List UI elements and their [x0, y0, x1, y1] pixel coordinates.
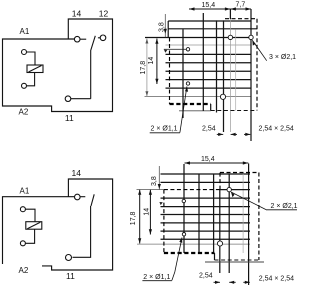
dashed outline right edge (top layout) [256, 19, 258, 111]
hole 14 Ø2,1 (top layout) [228, 35, 232, 39]
dimension text 2x01,1 (bottom layout) [143, 274, 170, 281]
hole 11 Ø2,1 (bottom layout) [217, 241, 222, 246]
terminal 14 circle (top) [74, 36, 80, 42]
coil bottom wire (bottom) [25, 229, 34, 243]
grid column x=202.5 [202, 13, 204, 111]
grid column x=168.2 solid top part [167, 21, 169, 38]
grid row y=189.6 right segment (bottom layout) [220, 189, 250, 191]
svg-text:12: 12 [99, 8, 109, 18]
outline step (top layout) [210, 104, 212, 111]
grid row y=96.5 gray extension row [145, 96, 252, 98]
grid row y=239.2 [161, 238, 251, 240]
extension line at top edge (bottom layout) [137, 189, 164, 191]
hole A1 Ø1,1 (top layout) [186, 48, 189, 51]
svg-text:14: 14 [72, 8, 82, 18]
grid row y=174 [161, 173, 251, 175]
grid column x=216.5 [216, 20, 218, 112]
dimension text 17,8 rotated (bottom layout) [130, 211, 137, 225]
dashed outline top edge (bottom layout) [164, 189, 220, 191]
grid row y=182.4 [161, 181, 251, 183]
light grid column x=230.4 lower part [229, 19, 231, 132]
grid row y=88.1 [166, 87, 252, 89]
grid row y=28.8 [168, 28, 257, 30]
coil top wire (bottom) [25, 209, 35, 222]
label A1 (bottom schematic) [20, 187, 30, 196]
svg-text:14: 14 [72, 168, 82, 178]
label 11 (top schematic) [65, 113, 74, 123]
dimension text 14 rotated (top layout) [148, 57, 155, 65]
dashed outline left edge (top layout) [169, 38, 171, 105]
grid row y=206.6 [161, 206, 251, 208]
grid row y=231.1 [161, 230, 251, 232]
dimension text 15,4 (top layout) [202, 2, 216, 9]
terminal 14 circle (bottom) [75, 194, 81, 200]
outline step (bottom layout) [214, 253, 216, 260]
terminal A1 pad circle (top) [22, 50, 27, 55]
dashed outline bottom-right edge (top layout) [211, 110, 257, 112]
hole 12 Ø2,1 (top layout) [249, 35, 253, 39]
svg-text:15,4: 15,4 [201, 156, 215, 163]
terminal 12 circle (top) [100, 35, 106, 41]
contact 12 stub [98, 37, 100, 39]
grid column x=251 extension both dims [250, 9, 252, 141]
dashed outline top edge (top layout) [225, 18, 257, 20]
dimension text 15,4 (bottom layout) [201, 156, 215, 163]
svg-text:2,54 × 2,54: 2,54 × 2,54 [259, 276, 294, 283]
movable contact arm (11 to 12) [91, 36, 96, 99]
dashed outline bottom-right edge (bottom layout) [215, 259, 259, 261]
label 11 (bottom schematic) [66, 271, 75, 281]
svg-text:14: 14 [148, 57, 155, 65]
light grid column x=243.1 [242, 174, 244, 253]
svg-text:14: 14 [143, 208, 150, 216]
svg-text:11: 11 [65, 113, 74, 123]
coil K1 (bottom schematic) [26, 222, 42, 230]
svg-text:2 × Ø1,1: 2 × Ø1,1 [151, 126, 178, 133]
dimension 15,4 line with arrows (bottom layout) [185, 161, 249, 164]
terminal 11 circle (bottom) [66, 255, 72, 261]
coil top wire [27, 52, 36, 65]
hole A2 Ø1,1 (bottom layout) [182, 233, 185, 236]
svg-text:3,8: 3,8 [151, 176, 158, 186]
label 12 (top schematic) [99, 8, 109, 18]
grid row y=214.5 [161, 214, 251, 216]
coil hole row mark y=49.3 [164, 49, 186, 52]
dimension text 2x01,1 (top layout) [151, 126, 178, 133]
dimension text 3,8 rotated (bottom layout) [151, 176, 158, 186]
dimension 3,8 line with arrows (bottom layout) [158, 166, 161, 190]
grid column x=183 [182, 29, 184, 118]
svg-text:A1: A1 [20, 187, 30, 196]
dimension text 14 rotated (bottom layout) [143, 208, 150, 216]
solid bottom line y=262 (bottom layout) [205, 261, 264, 263]
dimension text 2,54 (bottom layout) [199, 273, 213, 280]
dimension text 3,8 rotated (top layout) [159, 22, 166, 32]
pin 11 stub wire [71, 98, 91, 100]
svg-text:A2: A2 [19, 266, 29, 275]
leader 2x02,1 with underline (bottom layout) [231, 192, 297, 210]
dimension text 3x02,1 (top layout) [269, 54, 296, 61]
dimension 15,4 line with arrows (top layout) [189, 7, 230, 10]
bottom tab line y=110.8 [179, 110, 211, 112]
relay body outline (top schematic) [3, 19, 113, 112]
dashed outline bottom-left thick edge (top layout) [170, 103, 211, 105]
hole 11 Ø2,1 (top layout) [220, 94, 225, 99]
svg-text:A2: A2 [19, 108, 29, 117]
dimension text 2x02,1 (bottom layout) [271, 203, 298, 210]
label 14 (bottom schematic) [72, 168, 82, 178]
svg-text:17,8: 17,8 [130, 211, 137, 225]
grid column x=219.8 pin 11 column [219, 190, 221, 273]
dashed notch top edge (bottom layout) [220, 172, 259, 174]
grid row y=222.9 [161, 222, 251, 224]
label 14 (top schematic) [72, 8, 82, 18]
svg-text:2 × Ø2,1: 2 × Ø2,1 [271, 203, 298, 210]
grid row y=37.5 with left extension [145, 37, 251, 39]
leader 3x02,1 arrow (top layout) [252, 40, 266, 61]
contact 14 stub (bottom) [80, 196, 85, 198]
grid column x=199 [198, 174, 200, 253]
dimension 7,7 line with arrows (top layout) [230, 7, 251, 10]
dimension 3,8 line with arrows (top layout) [164, 14, 167, 37]
dimension 14 line (top layout) [155, 39, 158, 85]
grid column x=229.2 pin 14 column [228, 174, 230, 273]
leader 2x01,1 arrow (top layout) [150, 86, 188, 132]
pin row extension y=244.1 [137, 243, 250, 245]
terminal A2 pad circle (bottom) [20, 241, 25, 246]
dashed outline right edge (bottom layout) [258, 173, 260, 261]
movable contact arm (bottom) [73, 206, 91, 257]
contact slash (bottom) [91, 194, 94, 206]
terminal A1 pad circle (bottom) [20, 207, 25, 212]
label A2 (bottom schematic) [19, 266, 29, 275]
dimension text 2,54x2,54 (bottom layout) [259, 276, 294, 283]
grid column x=248.3 extension dims [248, 164, 250, 286]
svg-text:2,54: 2,54 [202, 126, 216, 133]
svg-text:11: 11 [66, 271, 75, 281]
bottom 2,54 arrows (top layout) [217, 133, 251, 136]
light grid row y=45.9 [166, 44, 252, 46]
coil bottom wire [27, 73, 35, 86]
svg-text:2,54: 2,54 [199, 273, 213, 280]
svg-text:2 × Ø1,1: 2 × Ø1,1 [143, 274, 170, 281]
bottom 2,54 arrows (bottom layout) [214, 281, 250, 284]
grid column x=213.6 [213, 174, 215, 253]
leader 2x01,1 arrow (bottom layout) [142, 238, 182, 281]
svg-text:3,8: 3,8 [159, 22, 166, 32]
hole 14 Ø2,1 (bottom layout) [227, 187, 231, 191]
grid column x=184 15,4 extension [183, 164, 185, 253]
dimension text 2,54 (top layout) [202, 126, 216, 133]
grid row y=62.8 [166, 62, 252, 64]
terminal 11 circle (top) [65, 96, 71, 102]
label A2 (top schematic) [19, 108, 29, 117]
svg-text:3 × Ø2,1: 3 × Ø2,1 [269, 54, 296, 61]
svg-text:15,4: 15,4 [202, 2, 216, 9]
dimension text 17,8 rotated (top layout) [140, 61, 147, 75]
terminal A2 pad circle (top) [22, 83, 27, 88]
svg-text:2,54 × 2,54: 2,54 × 2,54 [259, 126, 294, 133]
grid column x=230.4 extension to top dimension [229, 9, 231, 19]
svg-text:A1: A1 [20, 27, 30, 36]
label A1 (top schematic) [20, 27, 30, 36]
dimension text 7,7 (top layout) [236, 2, 246, 9]
grid column x=223.5 extends to dimension area [223, 20, 225, 132]
light grid column x=235.7 [235, 29, 237, 110]
dashed outline left edge (bottom layout) [163, 190, 165, 253]
dimension text 2,54x2,54 (top layout) [259, 126, 294, 133]
grid row y=79.6 [166, 79, 252, 81]
contact 14 stub [80, 38, 86, 40]
hole A1 Ø1,1 (bottom layout) [182, 199, 185, 202]
coil K1 (top schematic) [27, 65, 43, 73]
relay body outline (bottom schematic) [3, 179, 113, 270]
hole A2 Ø1,1 (top layout) [186, 82, 189, 85]
grid row y=71.2 [166, 70, 252, 72]
coil hole row mark (bottom layout) [159, 202, 162, 205]
dimension 17,8 line light (top layout) [145, 39, 148, 97]
dimension 14 line (bottom layout) [149, 190, 152, 235]
svg-text:7,7: 7,7 [236, 2, 246, 9]
dimension 17,8 line (bottom layout) [138, 190, 141, 244]
svg-text:17,8: 17,8 [140, 61, 147, 75]
grid row y=21 [168, 20, 251, 22]
dashed outline bottom-left thick edge (bottom layout) [164, 252, 215, 254]
grid row y=198.1 [161, 197, 251, 199]
dashed notch vertical (bottom layout) [219, 173, 221, 190]
grid row y=54.4 [166, 53, 252, 55]
